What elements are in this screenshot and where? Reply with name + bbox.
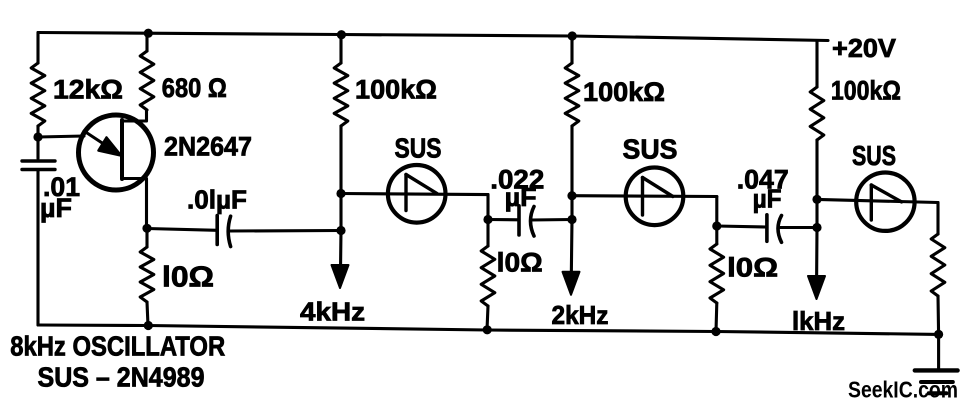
wire: U3 output elbow down [936,203,939,235]
node: bottom junction stage2 [711,327,720,336]
node: stage3 1kHz node [812,223,821,232]
wire: B1 node to coupling cap C2 [147,229,217,231]
resistor 100k ohm #3 [810,87,824,140]
svg-text:.0lµF: .0lµF [187,185,247,215]
wire: 100k #2 down through SUS node to 2kHz node [570,126,573,220]
wire: C2 to 4kHz node [229,229,341,233]
wire: 100k #1 down to SUS node and 4kHz node [339,126,342,231]
wire: SUS U2 row [572,194,717,198]
wire: rail to 100k #2 [570,36,573,63]
SUS U1 gate pole [404,175,407,211]
wire: B1 lead down [122,179,147,229]
resistor 100k ohm #2 [565,63,579,126]
wire: +20V top supply rail [38,33,828,41]
node: stage3 SUS node [812,195,821,204]
wire: SUS U3 row [817,199,938,202]
svg-text:SUS: SUS [852,140,896,171]
transistor Q1 emitter arrow [84,131,106,146]
SUS U2 diagonal [643,178,673,197]
node: 4kHz output arrow [332,265,349,288]
svg-text:12kΩ: 12kΩ [53,74,123,104]
wire: rail to 680 ohm [145,33,148,51]
SUS U2 gate pole [641,178,644,216]
svg-text:l0Ω: l0Ω [727,252,778,282]
node: stage2 2kHz node [567,215,576,224]
resistor 10 ohm (stage 1) [481,246,495,306]
wire: B1 node to 10 ohm, 10 ohm to bottom rail [145,228,148,247]
wire: 4kHz arrow shaft [339,231,343,271]
svg-text:680 Ω: 680 Ω [162,73,227,103]
wire: load resistor to bottom rail [936,296,940,334]
transistor Q1 2N2647 (UJT) circle [79,115,154,190]
wire: capacitor to bottom rail [36,170,39,326]
wire: left column top (rail to 12k) [36,33,39,64]
svg-text:2N2647: 2N2647 [164,132,252,162]
wire: 100k #3 down through SUS node to 1kHz node [815,140,818,228]
transistor Q1 base bar [120,120,124,179]
svg-text:l0Ω: l0Ω [497,248,543,278]
svg-text:100kΩ: 100kΩ [583,77,665,107]
resistor (unlabeled, stage 3 load) [931,234,945,296]
wire: emitter lead [38,136,84,137]
node: bottom junction stage1 [483,325,492,334]
wire: C3 to 2kHz node [531,218,573,222]
svg-text:SeekIC.com: SeekIC.com [848,377,958,403]
resistor 680 ohm [140,51,154,110]
node: stage1 cathode node [483,215,492,224]
svg-text:SUS: SUS [623,134,678,165]
wire: SUS U1 row [341,194,488,195]
svg-text:SUS: SUS [395,132,442,163]
node: stage1 SUS node [336,189,345,198]
svg-text:µF: µF [753,183,782,213]
svg-text:l0Ω: l0Ω [162,262,214,294]
svg-text:2kHz: 2kHz [552,300,609,330]
capacitor C4 .047 uF plates [765,215,769,242]
resistor 10 ohm (stage 2) [710,244,724,303]
node: stage1 4kHz node [336,226,345,235]
SUS U3 gate pole [870,185,873,220]
SUS U3 circle [856,173,914,231]
ground symbol [915,368,958,372]
svg-text:8kHz OSCILLATOR: 8kHz OSCILLATOR [10,331,225,362]
SUS U2 circle [626,168,684,226]
resistor 10 ohm (oscillator) [140,247,154,302]
node: rail junction stage1 [337,30,346,39]
svg-text:SUS – 2N4989: SUS – 2N4989 [38,361,205,392]
svg-text:+20V: +20V [832,33,897,63]
svg-text:4kHz: 4kHz [300,297,365,327]
wire: 12k to emitter node to capacitor [36,126,39,159]
wire: node to C4 [717,226,767,227]
capacitor C3 .022 uF plates [517,206,521,235]
wire: node to C3 [488,218,519,221]
svg-text:µF: µF [40,193,72,223]
svg-text:100kΩ: 100kΩ [831,76,901,106]
wire: U2 output elbow down [715,197,718,227]
node: B1 junction [142,224,151,233]
node: bottom junction 10ohm osc [144,321,153,330]
wire: 2kHz arrow shaft [570,220,574,277]
SUS U1 circle [388,165,446,223]
svg-text:100kΩ: 100kΩ [355,74,437,104]
node: emitter junction [33,132,42,141]
wire: bottom rail to ground [937,334,940,370]
SUS U1 diagonal [406,175,437,194]
capacitor .01 uF (left, horizontal plates) [22,159,55,162]
node: stage2 SUS node [567,191,576,200]
node: bottom junction ground [934,330,943,339]
node: stage2 cathode node [712,221,721,230]
node: 1kHz output arrow [808,276,825,299]
svg-text:µF: µF [505,182,537,212]
node: rail junction 680 [144,29,153,38]
wire: C4 to 1kHz node [778,226,817,229]
wire: rail corner to 100k #3 [815,41,818,88]
resistor 12k ohm [31,63,45,126]
capacitor C2 .01 uF plates [215,216,219,245]
wire: B2 lead to 680 ohm [122,110,147,121]
svg-text:lkHz: lkHz [792,306,845,336]
wire: rail to 100k #1 [339,35,342,64]
wire: 1kHz arrow shaft [815,228,819,281]
node: 2kHz output arrow [563,272,580,295]
wire: node to 10 ohm and to bottom rail [486,220,489,247]
wire: node to 10 ohm and to bottom rail [715,226,718,244]
wire: U1 output elbow down [486,195,489,220]
resistor 100k ohm #1 [334,63,348,126]
node: rail junction stage2 [568,31,577,40]
SUS U3 diagonal [871,185,901,202]
wire: ground bottom rail [38,325,939,334]
